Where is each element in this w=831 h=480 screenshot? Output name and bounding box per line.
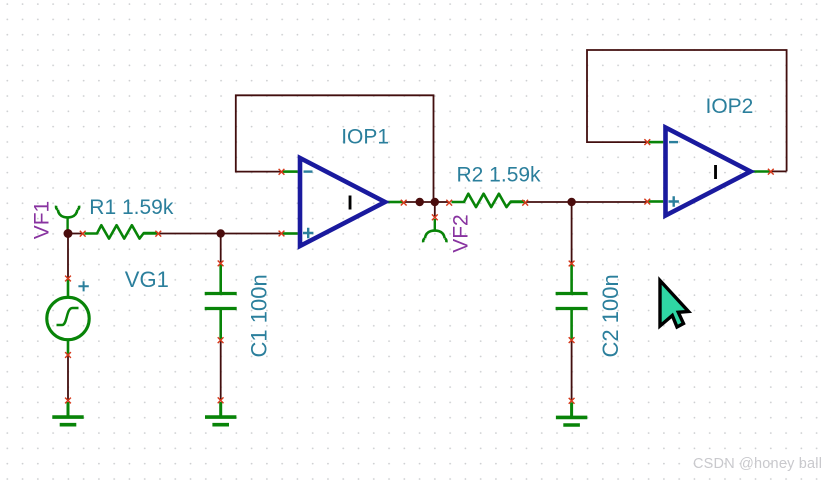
svg-text:IOP1: IOP1 bbox=[341, 126, 389, 149]
svg-text:C1 100n: C1 100n bbox=[246, 274, 271, 357]
svg-text:CSDN @honey ball: CSDN @honey ball bbox=[693, 456, 822, 472]
svg-text:I: I bbox=[347, 192, 353, 214]
svg-text:VG1: VG1 bbox=[125, 267, 169, 292]
svg-text:R1 1.59k: R1 1.59k bbox=[89, 196, 174, 219]
svg-text:VF2: VF2 bbox=[450, 214, 473, 253]
svg-text:R2 1.59k: R2 1.59k bbox=[457, 164, 542, 187]
svg-text:C2 100n: C2 100n bbox=[598, 274, 623, 357]
svg-text:IOP2: IOP2 bbox=[706, 95, 754, 118]
svg-text:I: I bbox=[713, 162, 719, 184]
svg-text:VF1: VF1 bbox=[31, 201, 54, 240]
